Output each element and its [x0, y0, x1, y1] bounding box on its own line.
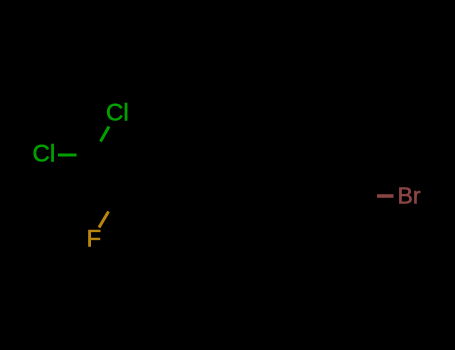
bond C1-Cl2 (green half-bond stub): [58, 154, 77, 157]
bond C3-Br (maroon half-bond stub): [377, 194, 394, 197]
bond C2-F (goldenrod half-bond stub): [99, 212, 109, 228]
svg-text:F: F: [87, 226, 102, 253]
bond C1-Cl1 (green half-bond stub): [101, 127, 110, 142]
svg-text:Cl: Cl: [106, 100, 129, 127]
svg-text:Cl: Cl: [33, 141, 56, 168]
svg-text:Br: Br: [398, 183, 421, 209]
